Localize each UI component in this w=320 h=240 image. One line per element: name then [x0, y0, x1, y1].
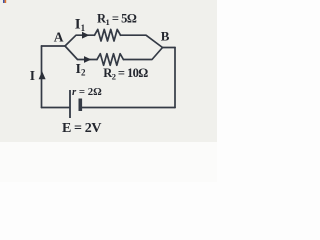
- wire: battery to bottom right: [82, 107, 176, 109]
- scan artifact top-left: [3, 0, 5, 3]
- wire: bottom branch to B: [123, 48, 162, 60]
- wire: bottom branch from A: [65, 46, 97, 60]
- arrow I1 on top branch: [82, 32, 89, 39]
- arrow I2 on bottom branch: [84, 56, 91, 63]
- svg-text:E = 2V: E = 2V: [62, 121, 101, 136]
- wire: left vertical: [41, 46, 43, 108]
- svg-text:R2 = 10Ω: R2 = 10Ω: [103, 66, 148, 82]
- wire: bottom left to battery: [42, 107, 70, 109]
- resistor R1: [95, 29, 121, 41]
- wire: top branch to B: [121, 35, 163, 47]
- svg-text:I: I: [30, 68, 35, 83]
- battery cell short plate (-): [79, 99, 83, 112]
- svg-text:R1 = 5Ω: R1 = 5Ω: [97, 11, 137, 27]
- paper background: [0, 0, 217, 182]
- wire: right vertical: [174, 48, 176, 108]
- wire: node B stub: [163, 47, 176, 49]
- wire: node A stub: [42, 45, 66, 47]
- svg-text:r = 2Ω: r = 2Ω: [72, 86, 102, 98]
- battery cell long plate (+): [69, 90, 71, 118]
- resistor R2: [97, 54, 123, 66]
- arrow I on left wire: [39, 71, 46, 79]
- wire: top branch from A: [65, 35, 95, 46]
- svg-text:B: B: [161, 29, 170, 44]
- svg-text:A: A: [54, 29, 64, 44]
